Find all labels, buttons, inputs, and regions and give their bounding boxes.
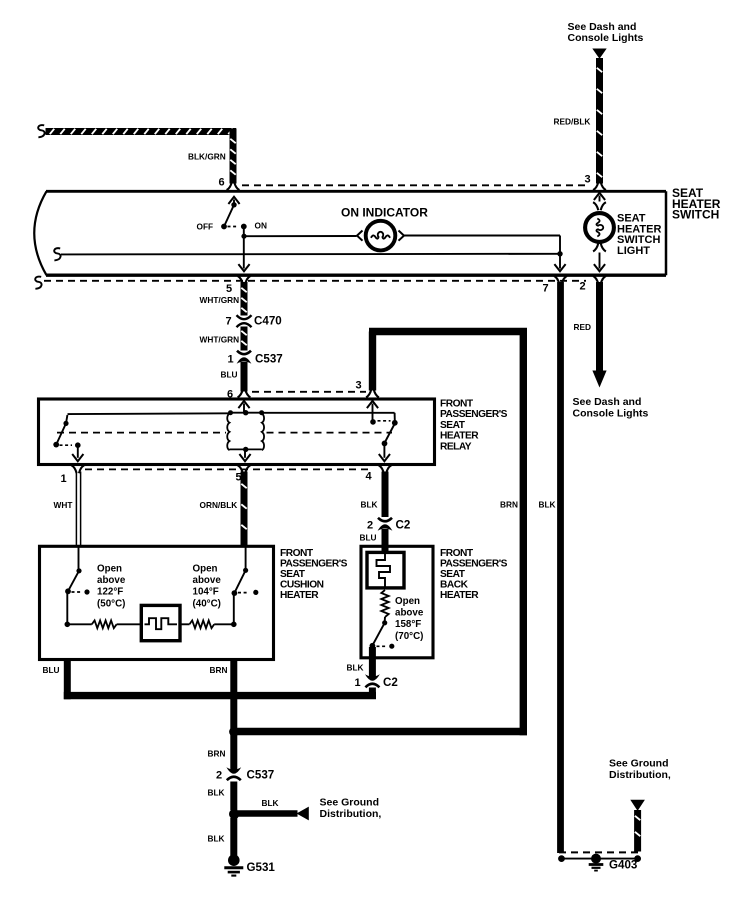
svg-text:BLU: BLU bbox=[43, 665, 60, 675]
svg-text:RED: RED bbox=[574, 322, 592, 332]
wire WHT double line bbox=[76, 472, 80, 547]
svg-text:BLK: BLK bbox=[539, 500, 556, 510]
svg-text:FRONT: FRONT bbox=[440, 399, 474, 410]
connector C537 upper bbox=[237, 351, 252, 364]
pin 2 terminal bbox=[593, 276, 606, 284]
relay mid dashed line bbox=[57, 432, 392, 434]
svg-text:RELAY: RELAY bbox=[440, 441, 472, 452]
connector C2 lower bbox=[365, 674, 380, 687]
label BLU exit bbox=[43, 665, 60, 675]
svg-text:See Ground: See Ground bbox=[320, 797, 380, 809]
svg-text:above: above bbox=[193, 575, 222, 586]
wire seat back heater to ground bus bbox=[369, 688, 376, 696]
svg-text:BLK: BLK bbox=[262, 798, 279, 808]
pin 5 terminal bbox=[238, 276, 251, 284]
node junction BRN bus bbox=[229, 727, 239, 737]
arrowhead to ground distribution bbox=[630, 800, 645, 811]
heater element R3 (seat back) bbox=[367, 552, 404, 588]
pin 1 C537 label bbox=[228, 354, 234, 366]
label BLK below C537 bbox=[208, 788, 225, 798]
svg-text:Distribution,: Distribution, bbox=[609, 769, 671, 781]
relay coil K1 bbox=[227, 410, 264, 452]
node junction pin 7 bbox=[557, 251, 562, 256]
wire element to thermal fuse bbox=[117, 623, 142, 625]
svg-text:4: 4 bbox=[366, 471, 373, 483]
svg-text:ON: ON bbox=[255, 221, 267, 231]
label WHT bbox=[54, 500, 73, 510]
svg-text:7: 7 bbox=[543, 283, 549, 295]
svg-text:FRONT: FRONT bbox=[440, 548, 474, 559]
relay left contact dashed bbox=[60, 442, 81, 448]
pin 1 C2 label bbox=[355, 677, 361, 689]
relay pin 4 label bbox=[366, 471, 373, 483]
label ORN/BLK bbox=[200, 500, 238, 510]
relay coil to pin 5 arrow bbox=[239, 450, 250, 461]
svg-text:(70°C): (70°C) bbox=[395, 631, 423, 642]
pin 7 label bbox=[543, 283, 549, 295]
svg-text:122°F: 122°F bbox=[97, 587, 123, 598]
off-page reference See Ground Distribution (right) bbox=[609, 758, 671, 782]
svg-text:BRN: BRN bbox=[208, 749, 226, 759]
wire BLK relay pin4 bbox=[382, 472, 389, 518]
svg-text:Open: Open bbox=[193, 563, 218, 574]
seat heater switch light lamp bbox=[585, 193, 614, 271]
relay right contact dashed bbox=[378, 420, 391, 422]
label RED/BLK bbox=[554, 117, 591, 127]
label FRONT PASSENGER'S SEAT HEATER RELAY bbox=[440, 399, 508, 453]
wire loop relay pin3 to bottom junction bbox=[236, 328, 527, 735]
wire BLU to seat back heater bbox=[382, 529, 389, 553]
svg-text:Open: Open bbox=[97, 563, 122, 574]
seat heater switch box bbox=[34, 191, 666, 275]
label C2 upper bbox=[396, 519, 411, 532]
label BLK to G531 bbox=[208, 834, 225, 844]
relay coil top wire to left contact bbox=[68, 412, 230, 415]
svg-text:PASSENGER'S: PASSENGER'S bbox=[280, 559, 348, 570]
label G403 bbox=[609, 859, 638, 872]
label BLK seat back bbox=[347, 663, 364, 673]
wire WHT/GRN upper bbox=[241, 282, 246, 316]
label ON bbox=[255, 221, 267, 231]
wire BRN cushion exit bbox=[230, 659, 237, 770]
relay pin 6 entry arrow bbox=[238, 401, 249, 412]
svg-text:PASSENGER'S: PASSENGER'S bbox=[440, 559, 508, 570]
ground G403 bbox=[589, 854, 604, 871]
svg-text:1: 1 bbox=[355, 677, 361, 689]
svg-text:G403: G403 bbox=[609, 859, 638, 872]
svg-text:WHT/GRN: WHT/GRN bbox=[200, 295, 240, 305]
pin 2 C537 label bbox=[216, 770, 222, 782]
wire BLK to G531 bbox=[230, 818, 237, 856]
wire lamp return from off-page (S break) bbox=[54, 248, 560, 260]
svg-text:BLU: BLU bbox=[221, 370, 238, 380]
svg-text:CUSHION: CUSHION bbox=[280, 580, 324, 591]
pin 7 terminal bbox=[554, 276, 567, 284]
arrowhead to dash lights bbox=[592, 371, 606, 388]
switch S1 lever bbox=[221, 202, 237, 229]
connector dashed line below relay bbox=[85, 468, 368, 470]
label FRONT PASSENGER'S SEAT CUSHION HEATER bbox=[280, 548, 348, 601]
label SEAT HEATER SWITCH LIGHT bbox=[617, 213, 661, 257]
relay pin 3 entry arrow bbox=[367, 401, 378, 425]
svg-text:SEAT: SEAT bbox=[440, 569, 466, 580]
label BLK pin4 bbox=[361, 500, 378, 510]
label C2 lower bbox=[383, 676, 398, 689]
pin 3 seat heater switch bbox=[585, 174, 591, 186]
wire BLK ground spur bbox=[238, 810, 298, 817]
svg-text:Distribution,: Distribution, bbox=[320, 808, 382, 820]
svg-text:C537: C537 bbox=[255, 353, 283, 366]
svg-text:104°F: 104°F bbox=[193, 587, 219, 598]
svg-text:158°F: 158°F bbox=[395, 619, 421, 630]
label WHT/GRN lower bbox=[200, 335, 240, 345]
svg-text:WHT/GRN: WHT/GRN bbox=[200, 335, 240, 345]
connector C537 lower bbox=[226, 767, 241, 780]
relay pin 6 label bbox=[227, 389, 233, 401]
wire WHT/GRN lower bbox=[241, 327, 246, 351]
svg-text:5: 5 bbox=[226, 283, 232, 295]
wire to ON indicator bbox=[245, 235, 357, 237]
svg-text:HEATER: HEATER bbox=[440, 431, 479, 442]
wire BLK/GRN hatched from off-page bbox=[38, 125, 239, 190]
svg-text:C2: C2 bbox=[383, 676, 398, 689]
connector dashed at G403 bbox=[559, 851, 641, 853]
label BRN exit bbox=[210, 665, 228, 675]
svg-text:C470: C470 bbox=[254, 315, 282, 328]
label BLK spur bbox=[262, 798, 279, 808]
svg-text:Console Lights: Console Lights bbox=[573, 408, 649, 420]
label OFF bbox=[197, 222, 214, 232]
svg-text:ORN/BLK: ORN/BLK bbox=[200, 500, 238, 510]
wire ORN/BLK hatched bbox=[241, 472, 246, 547]
svg-text:1: 1 bbox=[61, 473, 67, 485]
label Open above 104F 40C bbox=[193, 563, 222, 609]
svg-text:See Dash and: See Dash and bbox=[573, 396, 642, 408]
thermal switch 122F (cushion left) bbox=[65, 547, 90, 624]
thermal switch 158F (seat back) bbox=[370, 617, 395, 649]
svg-text:6: 6 bbox=[219, 177, 225, 189]
label BRN lower bbox=[208, 749, 226, 759]
front passenger's seat heater relay box bbox=[39, 399, 435, 465]
svg-text:(50°C): (50°C) bbox=[97, 598, 125, 609]
wire BLK from switch pin 7 bbox=[557, 282, 564, 853]
svg-text:FRONT: FRONT bbox=[280, 548, 314, 559]
connector dashed line below switch box (pins 5-7-2) bbox=[35, 277, 586, 289]
wire hatched stub to G403 bbox=[635, 810, 640, 852]
front passenger's seat back heater box bbox=[361, 546, 433, 658]
pin 5 label bbox=[226, 283, 232, 295]
heater element R1 (cushion left zigzag) bbox=[65, 620, 117, 628]
svg-text:BLK: BLK bbox=[208, 788, 225, 798]
off-page reference See Dash and Console Lights (top) bbox=[568, 21, 644, 44]
label ON INDICATOR bbox=[341, 206, 428, 220]
thermal fuse F1 (cushion) bbox=[141, 605, 180, 640]
front passenger's seat cushion heater box bbox=[40, 546, 274, 659]
wire RED from switch pin 2 bbox=[596, 282, 603, 371]
relay right contact bbox=[382, 420, 398, 446]
relay pin 4 exit arrow bbox=[379, 444, 390, 461]
pin 2 label bbox=[580, 281, 586, 293]
svg-text:RED/BLK: RED/BLK bbox=[554, 117, 591, 127]
svg-text:2: 2 bbox=[367, 520, 373, 532]
wire BLU cushion exit bbox=[64, 659, 71, 700]
svg-text:SWITCH: SWITCH bbox=[672, 208, 719, 222]
pin 2 C2 label bbox=[367, 520, 373, 532]
wire ON contact down to pin 5 bbox=[238, 227, 249, 272]
connector C2 upper bbox=[378, 518, 393, 531]
pin 6 seat heater switch bbox=[219, 177, 225, 189]
svg-text:SEAT: SEAT bbox=[280, 569, 306, 580]
svg-text:2: 2 bbox=[216, 770, 222, 782]
svg-text:BLK: BLK bbox=[208, 834, 225, 844]
svg-text:Console Lights: Console Lights bbox=[568, 32, 644, 44]
relay pin 1 exit arrow bbox=[72, 446, 83, 461]
label BLK long bbox=[539, 500, 556, 510]
svg-text:BLK/GRN: BLK/GRN bbox=[188, 152, 226, 162]
label BLU seat back bbox=[360, 533, 377, 543]
connector C470 bbox=[237, 315, 252, 327]
label RED bbox=[574, 322, 592, 332]
svg-text:3: 3 bbox=[356, 380, 362, 392]
svg-text:BRN: BRN bbox=[210, 665, 228, 675]
connector dashed line above relay (pins 6-3) bbox=[252, 391, 366, 393]
node junction ground spur bbox=[229, 809, 239, 819]
label WHT/GRN upper bbox=[200, 295, 240, 305]
switch pin 6 entry arrow bbox=[228, 197, 239, 205]
off-page reference See Dash and Console Lights (mid) bbox=[573, 396, 649, 420]
relay pin 4 terminal bbox=[379, 465, 392, 473]
wire BLU bbox=[241, 362, 248, 392]
heater element R2 (cushion right zigzag) bbox=[180, 620, 237, 628]
relay pin 1 terminal bbox=[71, 465, 84, 473]
svg-text:3: 3 bbox=[585, 174, 591, 186]
label BRN loop bbox=[500, 500, 518, 510]
svg-text:1: 1 bbox=[228, 354, 234, 366]
wire BLK seat back exit bbox=[369, 647, 376, 678]
node junction indicator branch bbox=[241, 234, 246, 239]
svg-text:above: above bbox=[97, 575, 126, 586]
wire lamp to pin 7 drop bbox=[404, 236, 560, 269]
svg-text:2: 2 bbox=[580, 281, 586, 293]
connector dashed line above switch box (pins 6-3) bbox=[242, 184, 586, 186]
relay pin 6 terminal bbox=[238, 389, 251, 397]
relay pin 5 label bbox=[236, 472, 242, 484]
label Open above 122F 50C bbox=[97, 563, 126, 609]
svg-text:G531: G531 bbox=[247, 861, 276, 874]
switch S1 dashed to ON contact bbox=[228, 224, 247, 230]
svg-text:WHT: WHT bbox=[54, 500, 73, 510]
svg-text:LIGHT: LIGHT bbox=[617, 245, 650, 257]
svg-text:HEATER: HEATER bbox=[440, 590, 479, 601]
arrowhead from dash lights bbox=[592, 49, 606, 59]
wire BLK below C537 bbox=[230, 782, 237, 811]
svg-text:BLK: BLK bbox=[347, 663, 364, 673]
off-page reference See Ground Distribution (left) bbox=[320, 797, 382, 821]
label Open above 158F 70C bbox=[395, 596, 424, 642]
svg-text:ON INDICATOR: ON INDICATOR bbox=[341, 206, 428, 220]
label C537 lower bbox=[247, 769, 275, 782]
svg-text:C2: C2 bbox=[396, 519, 411, 532]
relay pin 5 terminal bbox=[238, 465, 251, 473]
svg-text:C537: C537 bbox=[247, 769, 275, 782]
relay left contact bbox=[53, 415, 68, 448]
label FRONT PASSENGER'S SEAT BACK HEATER bbox=[440, 548, 508, 601]
ground G531 bbox=[224, 854, 243, 875]
ground bus G403 line bbox=[558, 855, 641, 862]
heater element zigzag (seat back) bbox=[381, 590, 388, 617]
wire ground bus horizontal bbox=[64, 692, 376, 699]
arrowhead from ground distribution bbox=[297, 807, 309, 821]
relay pin 1 label bbox=[61, 473, 67, 485]
label C537 bbox=[255, 353, 283, 366]
svg-text:PASSENGER'S: PASSENGER'S bbox=[440, 409, 508, 420]
svg-text:Open: Open bbox=[395, 596, 420, 607]
svg-text:See Ground: See Ground bbox=[609, 758, 669, 770]
svg-text:BRN: BRN bbox=[500, 500, 518, 510]
svg-text:(40°C): (40°C) bbox=[193, 598, 221, 609]
thermal switch 104F (cushion right) bbox=[232, 547, 259, 624]
relay pin 3 label bbox=[356, 380, 362, 392]
svg-text:SEAT: SEAT bbox=[440, 420, 466, 431]
label BLU bbox=[221, 370, 238, 380]
pin 7 C470 label bbox=[226, 316, 232, 328]
svg-text:BACK: BACK bbox=[440, 580, 469, 591]
relay coil top wire to right contact bbox=[262, 413, 395, 421]
svg-text:7: 7 bbox=[226, 316, 232, 328]
on-indicator lamp with chevrons bbox=[357, 221, 404, 251]
svg-text:HEATER: HEATER bbox=[280, 590, 319, 601]
svg-text:above: above bbox=[395, 608, 424, 619]
label G531 bbox=[247, 861, 276, 874]
svg-text:BLK: BLK bbox=[361, 500, 378, 510]
svg-text:OFF: OFF bbox=[197, 222, 214, 232]
svg-text:BLU: BLU bbox=[360, 533, 377, 543]
wire RED/BLK hatched bbox=[593, 58, 606, 190]
label SEAT HEATER SWITCH bbox=[672, 186, 721, 222]
label C470 bbox=[254, 315, 282, 328]
label BLK/GRN bbox=[188, 152, 226, 162]
switch pin 7 exit arrow bbox=[554, 264, 565, 271]
